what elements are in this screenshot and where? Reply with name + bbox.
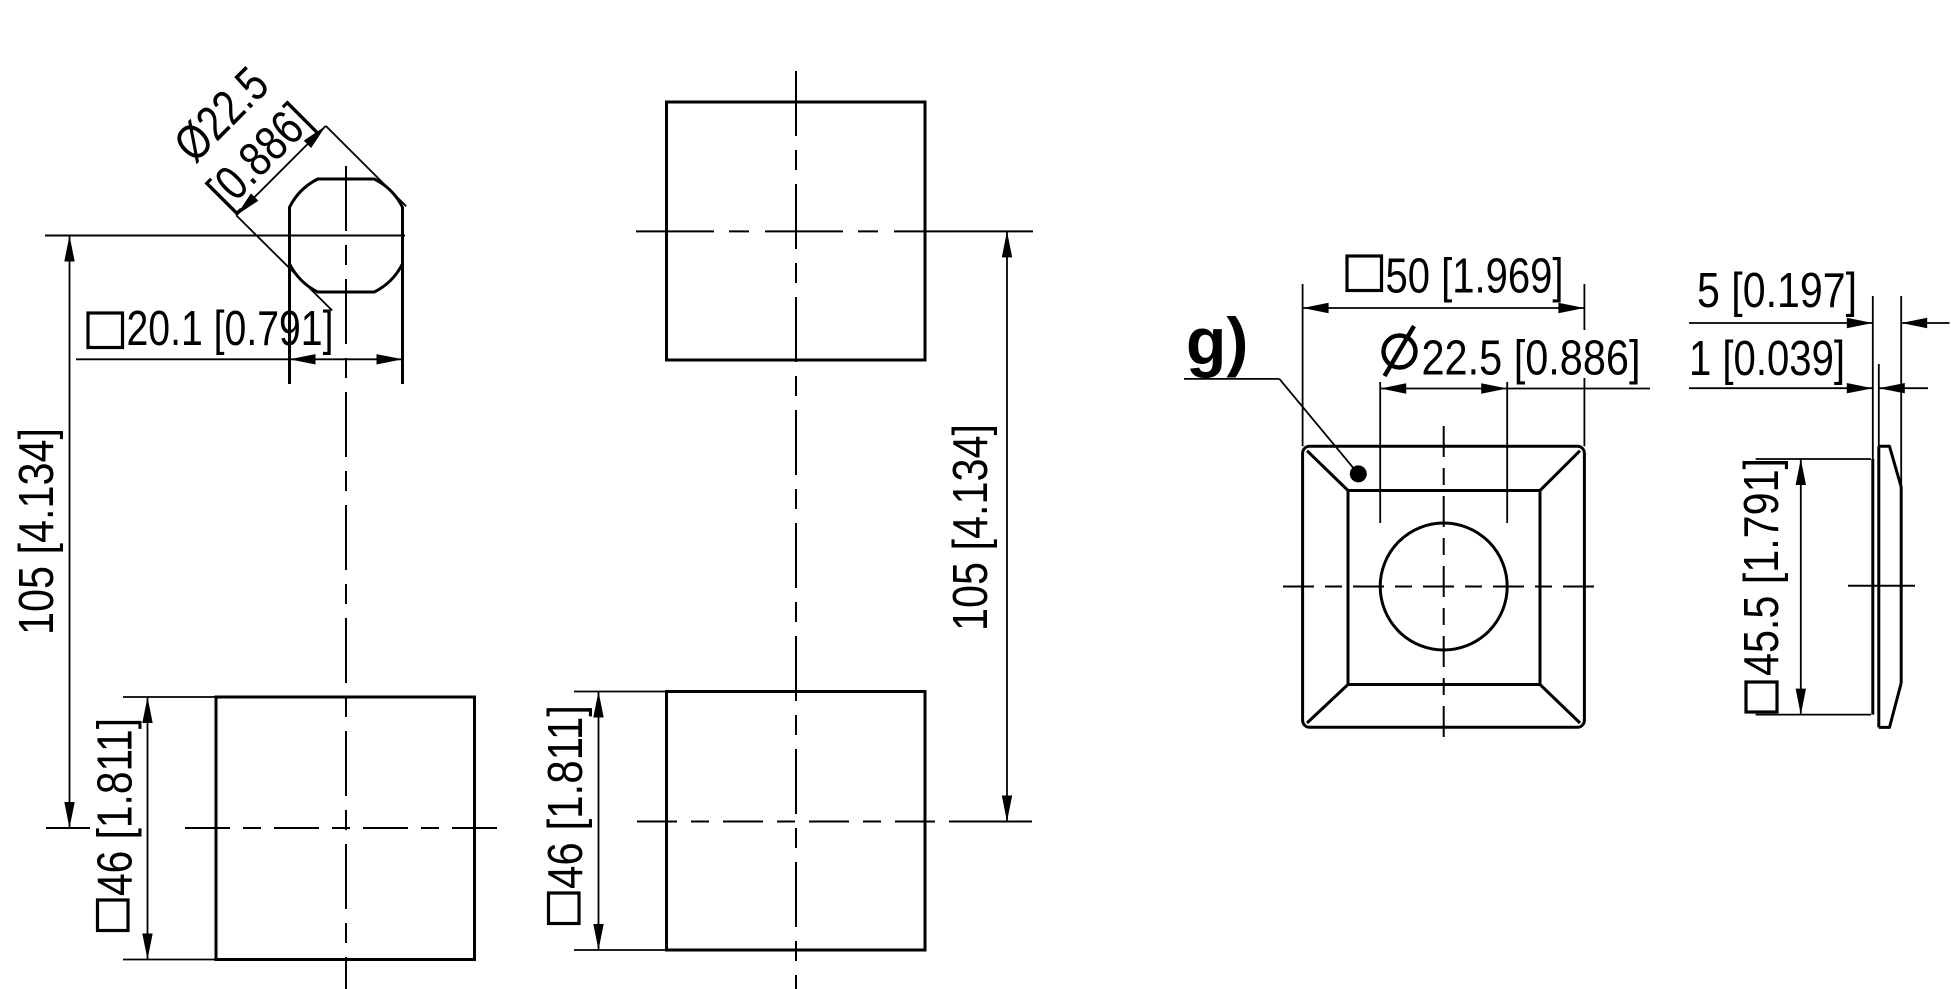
horizontal centerline head view 2 <box>636 230 955 232</box>
square symbol of label 45.5 <box>1746 682 1777 712</box>
extension segment to dim 105 middle top <box>955 230 1033 232</box>
horizontal centerline bezel <box>1283 586 1604 588</box>
dimension line 1 right part <box>1879 387 1928 389</box>
flange rear extension line <box>1878 364 1880 446</box>
leader line from g) <box>1279 379 1358 474</box>
svg-text:20.1 [0.791]: 20.1 [0.791] <box>127 302 334 356</box>
extension line bottom 46 left <box>123 959 217 961</box>
extension line right 50 <box>1583 284 1585 446</box>
vertical centerline view 2 <box>795 71 797 989</box>
bezel chamfer top-left <box>1307 451 1349 491</box>
white mask behind diameter label <box>1374 330 1646 378</box>
tangent extension line lower <box>236 215 332 310</box>
arrow up 46 middle <box>593 692 603 718</box>
bezel inner square <box>1348 491 1540 685</box>
dimension line 5 right part <box>1901 322 1949 324</box>
svg-text:50 [1.969]: 50 [1.969] <box>1386 250 1564 304</box>
svg-text:5 [0.197]: 5 [0.197] <box>1697 264 1857 318</box>
bezel chamfer top-right <box>1540 451 1581 491</box>
arrow up 45.5 <box>1796 459 1806 485</box>
arrow down 105 middle <box>1002 796 1012 822</box>
dimension line square46 left <box>147 697 149 960</box>
back face extension line <box>1872 296 1874 459</box>
svg-text:45.5 [1.791]: 45.5 [1.791] <box>1735 458 1789 676</box>
profile top edge and chamfer <box>1879 446 1901 487</box>
svg-text:22.5 [0.886]: 22.5 [0.886] <box>1422 332 1641 386</box>
label diameter 22.5 front : diameter symbol <box>1384 336 1416 368</box>
underline of g) <box>1184 378 1279 380</box>
button base rectangle view 1 <box>216 697 475 960</box>
arrow down 46 left <box>142 934 152 960</box>
arrow 5 right <box>1901 318 1927 328</box>
extension line bottom 45.5 <box>1756 714 1871 716</box>
arrow right 20.1 <box>377 354 403 364</box>
extension line right flat 20.1 <box>401 207 404 384</box>
vertical centerline view 1 <box>345 166 347 989</box>
extension line bottom 46 middle <box>574 949 667 951</box>
button head square view 2 <box>667 102 926 360</box>
arrow right diameter front <box>1481 383 1507 393</box>
profile bottom edge and chamfer <box>1879 683 1901 727</box>
arrow left diameter front <box>1380 383 1406 393</box>
svg-text:1 [0.039]: 1 [0.039] <box>1689 332 1845 386</box>
extension segment to dim 105 middle bottom <box>955 821 1032 823</box>
dimension line 105 left <box>69 236 71 829</box>
arrow upper diagonal <box>304 122 330 148</box>
dimension line 20.1 <box>76 358 403 360</box>
horizontal centerline of base view 1 (solid lead-in) <box>46 827 90 829</box>
bezel chamfer bottom-right <box>1540 684 1581 723</box>
tangent extension line upper <box>326 126 406 206</box>
svg-text:g): g) <box>1186 304 1248 378</box>
front face edge <box>1900 487 1903 683</box>
button shank octagon outline (circle with 4 flats) <box>290 179 403 292</box>
arrow right 50 <box>1558 303 1584 313</box>
bezel center hole circle <box>1380 523 1507 650</box>
extension line top 46 middle <box>574 691 667 693</box>
bezel outer square <box>1303 446 1585 727</box>
back face edge <box>1871 459 1874 715</box>
arrow lower diagonal <box>233 193 259 219</box>
arrow down 45.5 <box>1796 689 1806 715</box>
arrow up 105 left <box>64 236 74 262</box>
arrow 5 left <box>1847 318 1873 328</box>
dimension line 1 left part <box>1689 387 1873 389</box>
horizontal centerline of base view 1 <box>185 827 510 829</box>
dimension line diameter 22.5 front <box>1380 388 1650 390</box>
dimension line square50 <box>1303 307 1585 309</box>
horizontal centerline base view 2 <box>637 821 955 823</box>
square symbol of label 50 <box>1347 256 1382 291</box>
diagonal dimension line diameter 22.5 <box>236 126 325 215</box>
arrow left 50 <box>1303 303 1329 313</box>
svg-text:46 [1.811]: 46 [1.811] <box>89 718 143 896</box>
extension line top 45.5 <box>1756 458 1871 460</box>
front face extension line <box>1900 296 1902 487</box>
arrow up 105 middle <box>1002 231 1012 257</box>
side view centerline <box>1848 585 1915 587</box>
extension line circle right <box>1506 382 1508 523</box>
extension line left 50 <box>1302 284 1304 446</box>
arrow left 20.1 <box>290 354 316 364</box>
svg-text:105 [4.134]: 105 [4.134] <box>10 428 64 635</box>
arrow 1 left <box>1847 383 1873 393</box>
flange rear edge <box>1877 446 1880 727</box>
extension line top 46 left <box>123 696 217 698</box>
dimension line 5 left part <box>1689 322 1873 324</box>
square symbol of label 46 left <box>98 900 129 931</box>
arrow up 46 left <box>142 697 152 723</box>
square symbol of label 20.1 <box>88 313 123 348</box>
bezel chamfer bottom-left <box>1307 684 1349 723</box>
dimension line 105 middle <box>1006 231 1008 821</box>
leader dot <box>1350 465 1367 482</box>
svg-text:46 [1.811]: 46 [1.811] <box>539 705 593 889</box>
arrow down 46 middle <box>593 924 603 950</box>
dimension line square46 middle <box>598 692 600 951</box>
arrow down 105 left <box>64 802 74 828</box>
svg-text:105 [4.134]: 105 [4.134] <box>944 424 998 631</box>
horizontal extension line through octagon centre <box>45 235 405 237</box>
button base square view 2 <box>667 692 926 951</box>
extension line left flat 20.1 <box>288 207 291 384</box>
arrow 1 right <box>1879 383 1905 393</box>
square symbol of label 46 middle <box>549 893 580 924</box>
extension line circle left <box>1379 382 1381 523</box>
vertical centerline bezel <box>1443 426 1445 744</box>
dimension line square45.5 <box>1800 459 1802 715</box>
